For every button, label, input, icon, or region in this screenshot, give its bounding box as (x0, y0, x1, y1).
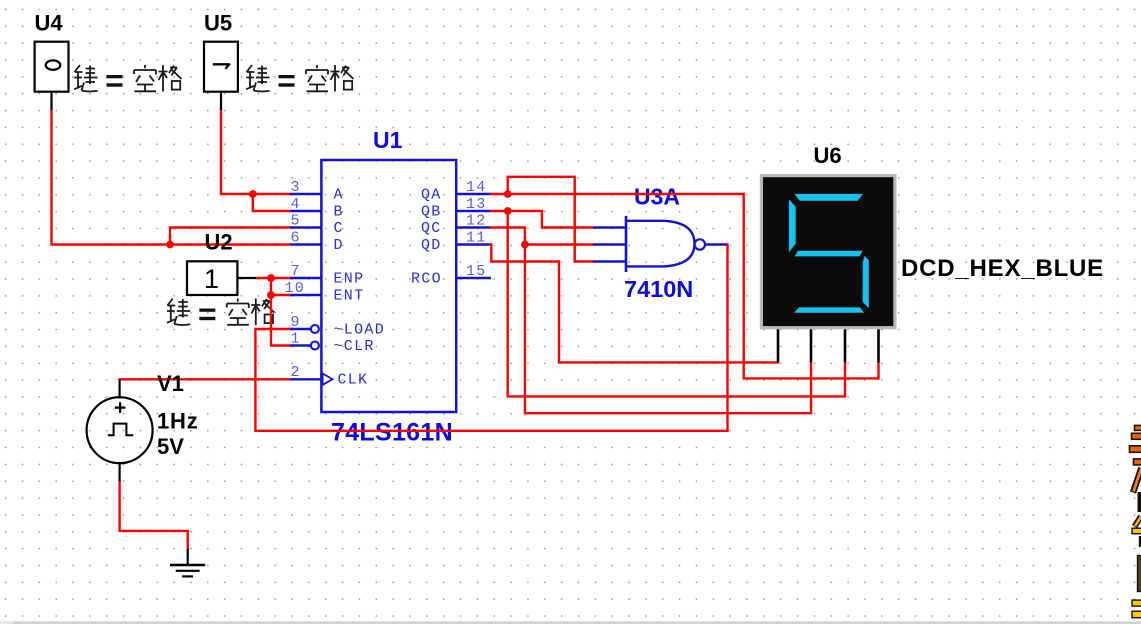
nand gate U3A body (626, 221, 695, 267)
wire QA net to display pin4 (490, 194, 879, 378)
svg-text:B: B (334, 203, 344, 220)
wire QA net to nand input3 (508, 177, 594, 262)
svg-text:U6: U6 (814, 143, 842, 168)
svg-text:A: A (334, 186, 344, 203)
svg-text:C: C (334, 220, 344, 237)
svg-text:U5: U5 (204, 10, 232, 35)
U1 ~LOAD bubble pin 9 (311, 325, 319, 333)
svg-text:1Hz: 1Hz (157, 408, 199, 433)
svg-text:3: 3 (291, 179, 301, 196)
svg-text:4: 4 (291, 196, 301, 213)
U1 pin numbers (285, 179, 487, 381)
wire V1 to pin2 CLK (118, 378, 290, 380)
svg-text:QD: QD (421, 237, 442, 254)
U1 pin names (334, 186, 442, 388)
svg-text:~CLR: ~CLR (334, 338, 375, 355)
constant U2 box (187, 261, 237, 295)
U1 pin stubs left (290, 194, 322, 379)
svg-text:U2: U2 (205, 229, 233, 254)
wire QB net to display pin3 (508, 210, 845, 397)
wire ENP junction down to pin1 ~CLR (271, 277, 291, 346)
V1 square wave glyph (108, 424, 133, 436)
red wires (52, 109, 879, 551)
junction ENT (267, 291, 275, 299)
svg-text:QA: QA (421, 186, 442, 203)
svg-text:U4: U4 (35, 10, 64, 35)
junction pin5/pin6 (166, 241, 174, 249)
junction dots (166, 190, 529, 299)
display U6 frame (760, 174, 897, 329)
junction QC (521, 241, 529, 249)
svg-text:ENP: ENP (334, 270, 365, 287)
wire U2 to pin7 ENP (255, 277, 291, 279)
U1 ~CLR bubble pin 1 (311, 342, 319, 350)
svg-text:RCO: RCO (411, 270, 442, 287)
U6 segment d (794, 307, 864, 312)
svg-text:74LS161N: 74LS161N (331, 419, 453, 447)
U1 pin stubs right (456, 194, 491, 278)
wire U4 to pin6 D (52, 109, 291, 245)
wire QC net to display pin2 (490, 228, 811, 414)
svg-text:~LOAD: ~LOAD (334, 321, 386, 338)
U4 rotated zero glyph (46, 60, 61, 69)
clock source V1 circle (87, 397, 153, 463)
wire QD net to display pin1 (491, 243, 779, 362)
svg-text:5: 5 (291, 212, 301, 229)
label U4 key=space phrase (74, 65, 181, 92)
svg-text:6: 6 (291, 229, 301, 246)
U3A input stubs (592, 228, 727, 262)
V1 bottom black stub (118, 462, 120, 481)
V1 plus sign (115, 402, 126, 413)
U3A output bubble (695, 239, 705, 249)
svg-text:QC: QC (421, 220, 442, 237)
svg-text:DCD_HEX_BLUE: DCD_HEX_BLUE (901, 255, 1104, 282)
bottom scrollbar strip (0, 621, 1141, 624)
U5 black stub (220, 92, 222, 110)
svg-text:1: 1 (291, 331, 301, 348)
U1 CLK edge triangle (323, 374, 333, 385)
U5 rotated one glyph (213, 64, 230, 69)
junction QB (504, 207, 512, 215)
svg-text:12: 12 (466, 212, 487, 229)
svg-text:1: 1 (204, 264, 219, 294)
U6 segment g (795, 251, 863, 257)
wire branch junction to pin4 B (253, 194, 291, 211)
label U2 key=space phrase (167, 299, 274, 326)
U6 segment f (789, 199, 796, 252)
wire QC junction to nand input2 (524, 243, 594, 245)
label U5 key=space phrase (246, 65, 353, 92)
svg-text:V1: V1 (157, 371, 184, 396)
svg-text:7410N: 7410N (624, 276, 693, 302)
wire U5 to pin3 A (221, 109, 291, 194)
U2 black stub (237, 277, 256, 279)
svg-text:U1: U1 (373, 127, 403, 153)
svg-text:13: 13 (466, 196, 487, 213)
svg-text:CLK: CLK (338, 372, 369, 389)
wire QB net to nand input1 (490, 211, 594, 228)
svg-text:9: 9 (291, 314, 301, 331)
svg-text:11: 11 (466, 229, 487, 246)
svg-text:D: D (334, 237, 344, 254)
svg-text:14: 14 (466, 179, 487, 196)
ground symbol (170, 549, 205, 576)
counter U1 74LS161N body (321, 160, 456, 412)
wire branch junction to pin5 C (170, 228, 291, 246)
wire ENT junction to pin10 (270, 294, 291, 296)
switch U4 box (35, 42, 69, 92)
svg-text:QB: QB (421, 203, 442, 220)
svg-text:15: 15 (466, 263, 487, 280)
svg-text:5V: 5V (157, 434, 184, 459)
watermark partial glyphs right edge (1130, 425, 1141, 617)
svg-text:U3A: U3A (634, 184, 680, 210)
svg-text:7: 7 (291, 263, 301, 280)
V1 top black stub (118, 379, 120, 398)
switch U5 box (204, 42, 238, 92)
U4 black stub (50, 92, 52, 110)
U6 segment a (794, 194, 863, 201)
junction pin3/pin4 (249, 190, 257, 198)
junction ENP (267, 274, 275, 282)
wire nand output to pin9 ~LOAD (255, 243, 727, 430)
U3A input bar (625, 216, 628, 272)
U6 display pins (778, 329, 879, 362)
svg-text:2: 2 (291, 364, 301, 381)
junction QA (504, 190, 512, 198)
svg-text:ENT: ENT (334, 287, 365, 304)
wire V1 to ground (120, 480, 188, 551)
U6 segment c (863, 256, 869, 308)
